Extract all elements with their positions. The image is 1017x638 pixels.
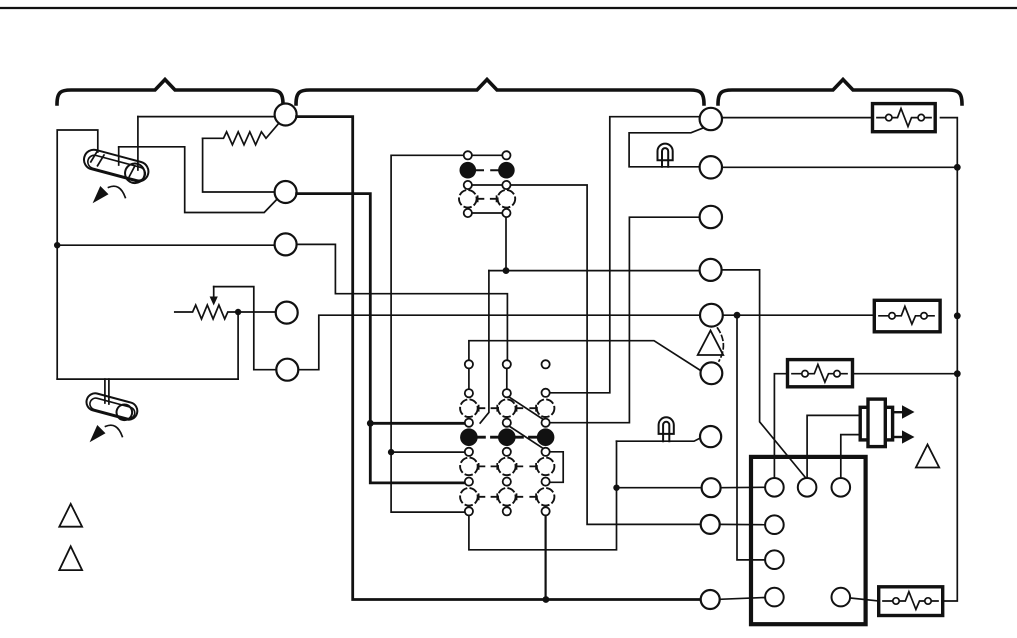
G2 dashed contacts row 408 <box>460 399 554 417</box>
brace 1 (thermostat section) <box>57 80 283 105</box>
wire col3 to R3 <box>550 217 700 423</box>
terminal R1 <box>700 108 722 130</box>
G2 switch blade diagonal 2 <box>509 426 544 449</box>
fuse F3 right wire <box>853 373 958 375</box>
wire R7 to relay pin1 <box>721 486 766 488</box>
mercury bulb M2 <box>84 391 139 423</box>
left bus wire <box>57 130 98 379</box>
right bus wire <box>941 118 958 601</box>
wire col3 row2 to R1 <box>550 117 700 393</box>
heat setpoint potentiometer <box>175 305 276 319</box>
brace 2 (subbase section) <box>296 80 704 105</box>
relay pin 2 <box>798 478 817 497</box>
wiper wire to T5 <box>214 287 277 370</box>
junction dot bus F3 <box>954 370 961 377</box>
fuse F1 <box>873 104 936 132</box>
G1 row3 wire to R8 <box>511 185 701 524</box>
junction dot R4 branch <box>503 267 510 274</box>
terminal T2 <box>275 181 297 203</box>
wire bulb M1 to T2 <box>119 147 278 213</box>
plug connector flank <box>860 407 892 440</box>
rotation arrow A2 <box>106 425 123 436</box>
page top border <box>0 7 1017 9</box>
G1 col2 small contacts <box>502 151 510 217</box>
wire relay pin2 to plug <box>807 415 860 478</box>
wire R1 to fuse F1 <box>722 117 874 119</box>
branch to contact K1 <box>370 422 465 425</box>
junction dot bottom run <box>543 596 550 603</box>
wire switch group left run <box>391 155 465 512</box>
wire R4 to relay pin2 <box>722 270 807 479</box>
wire R4 net down to contact K1 <box>480 271 489 423</box>
relay pin 7 <box>832 588 851 607</box>
G2 dashed contacts row 497 <box>460 488 554 506</box>
warning triangle 2 <box>59 546 82 570</box>
mercury bulb M1 leads <box>118 148 120 166</box>
terminal T1 <box>275 104 297 126</box>
terminal R4 <box>700 259 722 281</box>
fuse F3 left wire to relay pin1 <box>774 374 787 478</box>
relay pin 5 <box>765 550 784 569</box>
junction dot R5 <box>734 312 741 319</box>
G2 contact dashes row 408 <box>479 406 536 411</box>
wire T2 down run <box>297 194 465 483</box>
G2 filled contacts <box>460 428 478 446</box>
lamp L1 <box>658 144 673 161</box>
relay box <box>751 457 866 624</box>
plug connector body <box>868 399 885 447</box>
G2 col1 small contacts <box>465 360 473 515</box>
wire R5 branch to relay pin5 <box>737 315 765 560</box>
wire lamp L2 run <box>617 438 701 441</box>
warning triangle 4 <box>916 445 939 468</box>
wire G1 bottom stem <box>505 217 507 270</box>
wire T1 to R9 row (bottom run) <box>297 117 701 600</box>
G2 col2 row1 stem <box>506 369 508 389</box>
mercury bulb M2 leads <box>104 379 106 403</box>
wire bulb M1 to T1 <box>138 116 275 118</box>
mercury bulb M1 <box>81 147 151 186</box>
junction dot R7 branch <box>613 485 619 491</box>
wire to terminal R4 <box>489 270 700 272</box>
G2 contact dashes row 437 (filled) <box>478 436 536 439</box>
wire R8 to relay pin4 <box>720 523 765 525</box>
dashed arc note <box>718 328 724 361</box>
G2 contact dashes row 466 <box>479 464 536 469</box>
terminal T3 <box>275 233 297 255</box>
G1 contact dashes dashed row <box>478 196 497 201</box>
pot down wire <box>237 312 239 379</box>
G1 col1 small contacts <box>464 151 472 217</box>
wire R9 to relay pin6 <box>720 598 765 600</box>
bottom left wire <box>57 378 238 380</box>
fuse F3 <box>788 360 853 387</box>
G1 contact dashes filled row <box>476 169 497 171</box>
potentiometer junction dot <box>235 309 241 315</box>
wire to terminal R7 <box>617 487 702 489</box>
wire col1 to R6 <box>469 341 702 372</box>
wire R2 to bus <box>722 166 957 168</box>
plug arrow 2 <box>893 436 902 438</box>
wire col1 bottom to lamp run <box>469 441 617 550</box>
fuse F2 <box>874 300 940 332</box>
wire relay pin7 to fuse F4 <box>850 598 879 601</box>
junction dot bus R2 <box>954 164 961 171</box>
junction dot left run <box>388 449 394 455</box>
terminal R6 <box>701 362 723 384</box>
rotation arrow A1 <box>109 186 126 197</box>
fuse F4 <box>879 587 943 616</box>
G1 row5 link wire <box>471 212 502 214</box>
terminal R7 <box>702 478 721 497</box>
G1 filled contacts <box>460 162 477 179</box>
terminal R9 <box>701 590 720 609</box>
plug arrow 1 <box>893 411 902 413</box>
branch to contact K2 <box>391 451 465 453</box>
terminal R3 <box>700 206 722 228</box>
G2 col3 bracket wire <box>550 452 563 483</box>
wire resistor to T2 <box>203 138 275 192</box>
junction dot left bus <box>54 242 60 248</box>
wire T5 to R5 row <box>298 315 700 370</box>
wire T3 row <box>57 244 275 246</box>
wire R1 diagonal branch <box>629 128 703 167</box>
G2 col1 row1 stem <box>468 369 470 389</box>
wire T3 to col2 top <box>297 244 508 360</box>
G2 col3 small contacts <box>542 360 550 515</box>
terminal R8 <box>701 515 720 534</box>
relay pin 4 <box>765 515 784 534</box>
lamp L2 <box>659 417 674 434</box>
junction dot T2 run <box>367 420 374 427</box>
wire relay pin3 to plug <box>841 435 860 478</box>
terminal R2 <box>700 156 722 178</box>
warning triangle 1 <box>59 504 82 527</box>
G1 dashed contacts <box>459 190 477 208</box>
G2 contact dashes row 497 <box>479 494 536 499</box>
G2 switch blade diagonal 1 <box>509 397 544 420</box>
anticipator resistor <box>203 125 278 145</box>
terminal T4 <box>276 302 298 324</box>
relay pin 1 <box>765 478 784 497</box>
warning triangle 3 <box>698 331 724 356</box>
terminal RL <box>700 426 721 447</box>
G2 col2 small contacts <box>503 360 511 515</box>
terminal R5 <box>700 304 723 327</box>
wire col3 bottom down <box>544 516 546 600</box>
relay pin 3 <box>832 478 851 497</box>
wire R5 to fuse F2 <box>723 314 875 316</box>
relay pin 6 <box>765 588 784 607</box>
G1 row1 link wire <box>471 154 502 156</box>
potentiometer wiper arrow <box>213 287 215 298</box>
terminal T5 <box>276 359 298 381</box>
brace 3 (system section) <box>718 80 962 105</box>
junction dot bus F2 <box>954 312 961 319</box>
G2 dashed contacts row 466 <box>460 458 554 476</box>
G1 row3 link wire <box>471 184 502 186</box>
